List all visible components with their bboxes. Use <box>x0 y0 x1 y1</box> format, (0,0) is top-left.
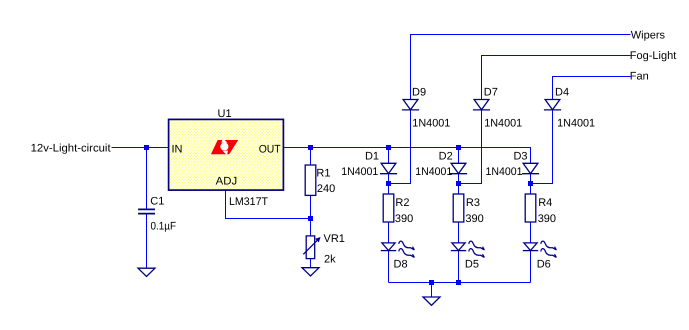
svg-text:Fog-Light: Fog-Light <box>630 50 676 62</box>
svg-text:D8: D8 <box>394 258 408 270</box>
svg-text:D4: D4 <box>555 86 569 98</box>
svg-text:Fan: Fan <box>630 70 649 82</box>
svg-text:D1: D1 <box>365 151 379 163</box>
svg-text:VR1: VR1 <box>324 233 345 245</box>
svg-text:1N4001: 1N4001 <box>341 166 378 178</box>
svg-text:12v-Light-circuit: 12v-Light-circuit <box>31 142 111 154</box>
svg-text:LM317T: LM317T <box>229 196 268 208</box>
svg-text:R3: R3 <box>466 197 480 209</box>
svg-text:D9: D9 <box>412 86 426 98</box>
svg-text:1N4001: 1N4001 <box>415 166 452 178</box>
svg-text:Wipers: Wipers <box>631 30 666 42</box>
svg-text:D2: D2 <box>439 151 453 163</box>
svg-text:0.1µF: 0.1µF <box>151 220 177 232</box>
svg-text:IN: IN <box>172 143 183 155</box>
svg-text:1N4001: 1N4001 <box>484 118 522 130</box>
svg-text:1N4001: 1N4001 <box>412 118 450 130</box>
svg-text:D3: D3 <box>513 151 527 163</box>
svg-text:1N4001: 1N4001 <box>486 166 523 178</box>
svg-text:2k: 2k <box>324 253 336 265</box>
svg-text:OUT: OUT <box>259 143 281 155</box>
svg-text:390: 390 <box>465 213 483 225</box>
svg-text:D5: D5 <box>465 258 479 270</box>
svg-text:240: 240 <box>317 183 335 195</box>
svg-text:R2: R2 <box>395 197 409 209</box>
svg-text:D7: D7 <box>484 86 498 98</box>
svg-text:1N4001: 1N4001 <box>557 118 595 130</box>
svg-text:U1: U1 <box>218 108 232 120</box>
svg-text:R1: R1 <box>316 168 330 180</box>
svg-text:ADJ: ADJ <box>216 175 238 187</box>
svg-text:D6: D6 <box>537 258 551 270</box>
svg-text:R4: R4 <box>538 197 552 209</box>
svg-text:390: 390 <box>538 213 556 225</box>
svg-text:390: 390 <box>395 213 413 225</box>
svg-text:C1: C1 <box>150 196 164 208</box>
